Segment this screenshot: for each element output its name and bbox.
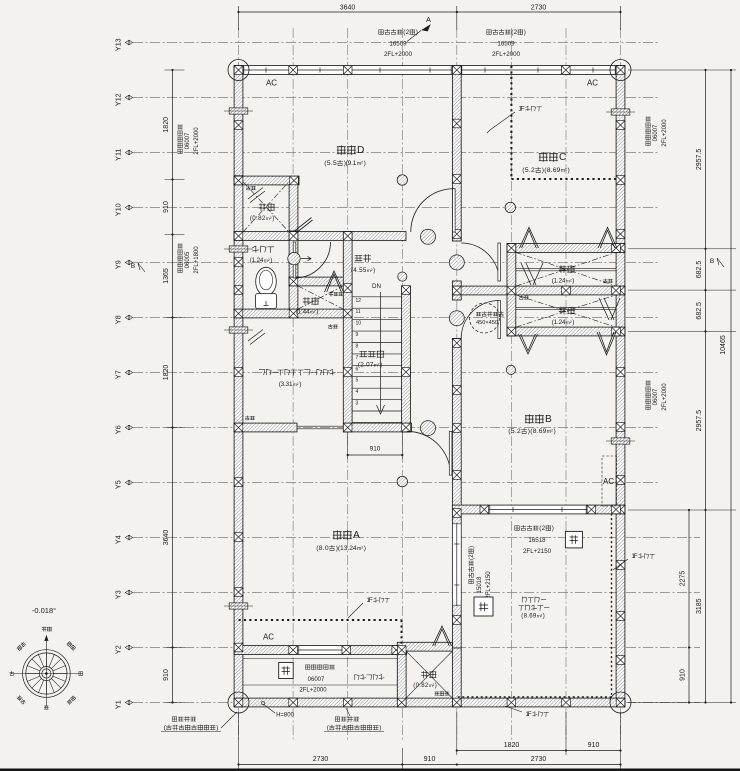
svg-text:m²: m² — [357, 161, 363, 167]
post right wall — [616, 368, 625, 377]
room D closet east wall — [289, 185, 298, 232]
svg-text:): ) — [416, 29, 418, 36]
room label 収納 1.44 — [303, 298, 310, 305]
ceiling access hatch circle — [470, 303, 500, 333]
sliding window 16509 left — [243, 66, 452, 74]
svg-text:A: A — [353, 530, 360, 541]
svg-text:2730: 2730 — [531, 5, 547, 12]
post — [343, 698, 352, 707]
room label 洋室B — [525, 415, 533, 424]
svg-text:): ) — [364, 545, 366, 552]
post A south wall — [289, 646, 298, 655]
post — [453, 175, 462, 184]
hall west wall — [343, 232, 352, 432]
svg-text:(0.82: (0.82 — [413, 682, 429, 689]
svg-text:06005: 06005 — [185, 251, 191, 268]
grid line — [401, 28, 403, 742]
svg-text:3640: 3640 — [163, 530, 170, 546]
hall north wall — [234, 232, 406, 241]
awning window room B — [611, 438, 630, 444]
svg-text:AC: AC — [263, 633, 274, 642]
svg-text:)(8.69: )(8.69 — [528, 428, 547, 435]
post — [612, 505, 621, 514]
closet C hanger pipe — [516, 269, 616, 271]
corner column circle SW — [228, 692, 249, 713]
wall brace closet lower interior — [599, 298, 620, 320]
svg-text:3640: 3640 — [340, 5, 356, 12]
svg-text:): ) — [270, 257, 272, 264]
svg-text:AC: AC — [266, 79, 277, 88]
svg-text:Y2: Y2 — [114, 645, 123, 654]
svg-text:Y5: Y5 — [114, 480, 123, 489]
central wall between doors — [452, 281, 461, 300]
room label 収納 0.82 bottom — [422, 671, 428, 678]
transom box room B window — [565, 531, 582, 548]
wall brace closet upper interior — [521, 263, 543, 285]
WIC sliding door — [297, 426, 344, 429]
corner post SW — [234, 698, 243, 707]
window label left wall toilet rotated — [177, 244, 182, 273]
post — [612, 244, 621, 253]
closet B hanger pipe — [516, 308, 616, 310]
post left wall — [234, 176, 243, 185]
grid line Y7 — [133, 372, 658, 374]
svg-text:16509: 16509 — [389, 41, 407, 48]
room label 収納 1.24 lower — [559, 307, 566, 314]
post left wall — [234, 286, 243, 295]
awning window room C — [611, 109, 630, 115]
top exterior wall — [234, 66, 625, 75]
post hall north — [343, 232, 352, 241]
post right wall — [616, 121, 625, 130]
dimension line — [688, 510, 690, 703]
svg-text:8: 8 — [356, 344, 359, 350]
corner post NE — [616, 66, 625, 75]
svg-text:m²: m² — [429, 683, 435, 689]
svg-text:9: 9 — [356, 332, 359, 338]
label 枕棚 WIC top — [328, 324, 332, 328]
svg-text:682.5: 682.5 — [696, 302, 703, 320]
svg-text:): ) — [364, 160, 366, 167]
svg-text:): ) — [572, 277, 574, 284]
svg-text:): ) — [316, 308, 318, 315]
post — [343, 309, 352, 318]
svg-text:1820: 1820 — [163, 117, 170, 133]
svg-text:)(13.24: )(13.24 — [336, 545, 357, 552]
window label left wall upper rotated — [177, 125, 182, 154]
svg-text:m²: m² — [357, 546, 363, 552]
svg-text:16518: 16518 — [528, 537, 546, 544]
post top wall — [343, 66, 352, 75]
column marker toilet — [288, 252, 300, 264]
svg-text:B: B — [131, 263, 135, 270]
left exterior wall — [234, 66, 243, 707]
svg-text:06007: 06007 — [653, 124, 659, 141]
bottom dimension row 1 — [456, 749, 458, 751]
grid line Y11 — [133, 152, 658, 154]
post — [612, 286, 621, 295]
post — [397, 646, 406, 655]
post — [453, 339, 462, 348]
post — [402, 368, 411, 377]
svg-text:1820: 1820 — [163, 365, 170, 381]
toilet and WIC wall — [234, 309, 352, 318]
room label インナーバルコニー — [522, 597, 527, 602]
svg-text:Y7: Y7 — [114, 370, 123, 379]
post — [289, 277, 298, 286]
closet middle wall — [452, 286, 625, 295]
post — [397, 698, 406, 707]
grid line Y12 — [133, 97, 658, 99]
window label room A south — [306, 665, 310, 669]
svg-text:): ) — [379, 724, 381, 731]
grid line Y1 — [133, 702, 700, 704]
room label トイレ — [253, 246, 259, 252]
svg-text:910: 910 — [163, 201, 170, 213]
post — [402, 423, 411, 432]
post hall north — [289, 232, 298, 241]
grid line Y6 — [133, 427, 658, 429]
post right wall — [616, 423, 625, 432]
grid line — [620, 28, 622, 742]
svg-text:m²: m² — [310, 309, 316, 315]
room label 廊下 — [355, 255, 362, 260]
room D closet shelf marks — [248, 188, 265, 203]
window label top left — [379, 30, 383, 34]
svg-text:m²: m² — [374, 362, 380, 368]
svg-text:A: A — [426, 15, 431, 24]
svg-text:12: 12 — [356, 298, 362, 304]
svg-text:910: 910 — [680, 669, 687, 681]
door room D — [411, 189, 454, 232]
svg-text:06007: 06007 — [185, 132, 191, 149]
room D closet north wall — [234, 176, 299, 185]
closet 0.82 cross — [406, 651, 452, 698]
svg-text:910: 910 — [588, 742, 600, 749]
post right wall — [616, 327, 625, 336]
transom box balcony — [474, 597, 493, 616]
svg-text:AC: AC — [587, 79, 598, 88]
closet D cross — [243, 182, 289, 232]
svg-text:1F: 1F — [631, 553, 637, 560]
compass label north — [42, 627, 46, 631]
post — [289, 309, 298, 318]
stair east wall — [402, 286, 411, 432]
awning window room A — [229, 603, 248, 609]
column marker room D — [397, 175, 407, 185]
wall brace closet 0.82 — [433, 626, 452, 646]
svg-text:(1.24: (1.24 — [552, 319, 566, 326]
post — [612, 327, 621, 336]
post — [453, 471, 462, 480]
room label ウォークインクローゼット — [259, 370, 264, 375]
grid line — [565, 28, 567, 742]
svg-text:06007: 06007 — [308, 677, 325, 683]
transom box bottom left — [279, 663, 294, 679]
wall — [234, 423, 297, 432]
dimension line — [457, 750, 621, 752]
svg-text:06007: 06007 — [653, 388, 659, 405]
svg-text:2FL+2150: 2FL+2150 — [486, 571, 492, 599]
svg-text:3185: 3185 — [696, 598, 703, 614]
window label room B south — [515, 526, 519, 530]
dimension line — [172, 70, 174, 703]
svg-text:): ) — [572, 319, 574, 326]
window label top right — [487, 30, 491, 34]
svg-text:B: B — [545, 414, 552, 425]
svg-text:1F: 1F — [366, 597, 372, 604]
right dimension line inner — [688, 509, 690, 511]
interior dim 910 room A — [347, 432, 349, 459]
door room A — [407, 431, 451, 475]
svg-text:Y13: Y13 — [114, 38, 123, 51]
column note right — [335, 717, 339, 721]
svg-text:1365: 1365 — [163, 268, 170, 284]
post — [507, 244, 516, 253]
svg-text:): ) — [380, 361, 382, 368]
post room D closet — [290, 176, 299, 185]
column marker central wall upper — [449, 255, 464, 270]
post left wall — [234, 643, 243, 652]
svg-text:(0.82: (0.82 — [250, 215, 266, 222]
column marker hall north — [421, 229, 436, 244]
corner column circle NW — [228, 60, 249, 81]
grid line Y9 — [133, 262, 658, 264]
central wall upper D-C divider — [452, 66, 461, 241]
room label 階段室 — [360, 351, 367, 356]
svg-text:2FL+2000: 2FL+2000 — [662, 119, 668, 147]
room label 洋室A — [333, 531, 341, 540]
awning window left top — [229, 108, 248, 114]
toilet east wall — [289, 232, 298, 314]
post — [453, 386, 462, 395]
column marker room A door — [421, 421, 436, 436]
staircase down arrow — [377, 292, 385, 414]
column marker room B — [506, 365, 515, 374]
svg-text:5: 5 — [356, 378, 359, 384]
stair south wall — [344, 423, 412, 432]
svg-text:7: 7 — [356, 355, 359, 361]
post — [453, 286, 462, 295]
room B south wall — [452, 505, 625, 514]
closet C cross — [516, 252, 616, 286]
grid line — [292, 28, 294, 742]
svg-text:910: 910 — [424, 756, 436, 763]
grid line — [347, 28, 349, 742]
wall brace closet C top right — [598, 227, 617, 248]
post right wall — [616, 561, 625, 570]
post top wall — [562, 66, 571, 75]
svg-text:(5.2: (5.2 — [508, 428, 521, 435]
svg-text:15018: 15018 — [477, 576, 483, 593]
post right wall — [616, 476, 625, 485]
svg-text:(8.0: (8.0 — [316, 545, 329, 552]
awning window 06007 room A south — [298, 646, 343, 654]
svg-text:Y8: Y8 — [114, 315, 123, 324]
column marker central wall lower — [449, 311, 464, 326]
right exterior wall — [616, 66, 625, 707]
svg-text:)(9.1: )(9.1 — [344, 160, 357, 167]
svg-text:2730: 2730 — [313, 756, 329, 763]
svg-text:)(8.69: )(8.69 — [542, 167, 561, 174]
svg-text:): ) — [543, 612, 545, 619]
svg-text:Y9: Y9 — [114, 260, 123, 269]
room A south wall — [234, 646, 407, 655]
svg-text:AC: AC — [603, 477, 614, 486]
grid line — [456, 28, 458, 742]
svg-text:(4.55: (4.55 — [351, 267, 367, 274]
svg-text:): ) — [468, 546, 475, 548]
post left wall — [234, 232, 243, 241]
svg-text:682.5: 682.5 — [696, 261, 703, 279]
svg-text:D: D — [357, 145, 364, 156]
balcony floor lines — [243, 659, 397, 686]
svg-text:): ) — [373, 267, 375, 274]
svg-text:m²: m² — [566, 320, 572, 326]
column marker room C — [505, 202, 515, 212]
svg-text:2FL+2000: 2FL+2000 — [299, 688, 327, 694]
ceiling hatch label — [476, 312, 481, 316]
column marker hall — [398, 272, 407, 281]
awning window WIC — [229, 327, 248, 333]
post left wall — [234, 121, 243, 130]
svg-text:2957.5: 2957.5 — [696, 149, 703, 171]
window label right wall room B rotated — [645, 381, 650, 410]
svg-text:): ) — [272, 215, 274, 222]
svg-text:2FL+2000: 2FL+2000 — [492, 51, 521, 58]
wall — [234, 698, 625, 707]
closet 1.44 cross — [298, 286, 343, 309]
svg-text:Y4: Y4 — [114, 535, 123, 544]
grid line Y4 — [133, 537, 700, 539]
post right wall — [616, 244, 625, 253]
label 枕棚 WIC bottom — [245, 416, 249, 420]
svg-text:(2: (2 — [403, 29, 409, 36]
svg-text:Y1: Y1 — [114, 700, 123, 709]
svg-text:11: 11 — [356, 309, 361, 315]
svg-text:(1.44: (1.44 — [296, 308, 310, 315]
closet B north wall — [507, 327, 625, 336]
post — [402, 286, 411, 295]
svg-text:1F: 1F — [518, 105, 524, 112]
closet 0.82 west wall — [397, 644, 406, 707]
post — [234, 258, 243, 267]
post — [453, 119, 462, 128]
room label 洋室D — [337, 146, 345, 155]
post left wall — [234, 588, 243, 597]
post A south wall — [342, 646, 351, 655]
dimension line — [705, 70, 707, 703]
svg-text:3: 3 — [356, 401, 359, 407]
svg-text:1820: 1820 — [504, 742, 520, 749]
svg-text:m²: m² — [566, 278, 572, 284]
post — [453, 616, 462, 625]
door toilet — [295, 242, 331, 278]
1F outline dotted line balcony — [457, 514, 612, 698]
svg-text:): ) — [216, 724, 218, 731]
svg-text:2FL+2150: 2FL+2150 — [523, 548, 552, 555]
post — [480, 505, 489, 514]
svg-text:Y3: Y3 — [114, 590, 123, 599]
grid line Y13 — [133, 42, 658, 44]
closet 0.82 east wall — [452, 648, 461, 707]
bottom scan edge — [0, 769, 740, 771]
room label 収納 0.82 — [259, 204, 266, 211]
dimension line — [730, 70, 732, 703]
closet west wall — [507, 244, 516, 336]
compass rose — [13, 636, 79, 707]
corner post NW — [234, 66, 243, 75]
post — [453, 698, 462, 707]
wall brace closet C top left — [520, 227, 539, 248]
label パラペット — [355, 675, 359, 680]
wall brace closet B bottom right — [597, 332, 616, 355]
room label 洋室C — [539, 153, 547, 162]
svg-text:m²: m² — [367, 268, 373, 274]
svg-text:(2: (2 — [468, 554, 475, 560]
svg-text:16509: 16509 — [497, 41, 515, 48]
svg-text:2957.5: 2957.5 — [696, 410, 703, 432]
post — [562, 698, 571, 707]
post — [343, 423, 352, 432]
post — [507, 698, 516, 707]
post — [562, 286, 571, 295]
grid line Y3 — [133, 592, 700, 594]
dimension line — [239, 11, 621, 13]
grid line — [510, 28, 512, 742]
toilet fixture — [256, 267, 277, 295]
post left wall — [234, 423, 243, 432]
svg-text:4: 4 — [356, 389, 359, 395]
wall brace closet B bottom left — [519, 334, 538, 354]
staircase treads — [352, 297, 402, 423]
1F outline dotted line room C — [511, 66, 617, 179]
svg-text:DN: DN — [372, 283, 381, 290]
post left wall — [234, 533, 243, 542]
post — [453, 509, 462, 518]
room label 収納 1.24 upper — [559, 266, 566, 273]
awning window toilet — [229, 246, 248, 252]
room D closet door leaf — [295, 218, 313, 234]
svg-text:): ) — [299, 381, 301, 388]
central wall lower — [452, 339, 461, 649]
svg-text:-0.018°: -0.018° — [32, 606, 56, 615]
svg-text:10465: 10465 — [720, 335, 727, 355]
svg-text:m²: m² — [547, 429, 553, 435]
1F outline dotted line bottom left — [239, 620, 402, 645]
corner post SE — [616, 698, 625, 707]
post left wall — [234, 309, 243, 318]
dimension line — [348, 454, 403, 456]
svg-text:10: 10 — [356, 321, 362, 327]
grid line Y2 — [133, 647, 700, 649]
svg-text:): ) — [568, 167, 570, 174]
grid line Y8 — [133, 317, 658, 319]
closet C north wall — [507, 244, 625, 253]
door room C — [461, 243, 499, 281]
corner column circle SE — [610, 692, 631, 713]
svg-text:H=800: H=800 — [276, 713, 295, 719]
svg-text:m²: m² — [537, 613, 543, 619]
post right wall — [616, 505, 625, 514]
svg-text:(8.69: (8.69 — [521, 612, 537, 619]
svg-text:1F: 1F — [525, 711, 531, 718]
svg-text:(2: (2 — [539, 525, 545, 532]
post — [234, 176, 243, 185]
svg-text:C: C — [559, 152, 566, 163]
dimension line — [239, 764, 621, 766]
svg-text:2275: 2275 — [680, 571, 687, 587]
